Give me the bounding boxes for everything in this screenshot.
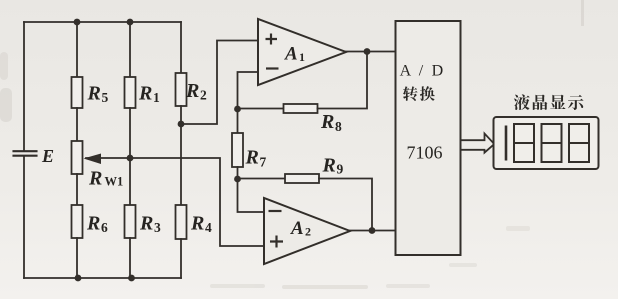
A1 plus input pin symbol [266, 34, 278, 45]
RW1 wiper arrowhead [84, 154, 102, 165]
svg-text:2: 2 [305, 225, 311, 239]
LCD digit 8 (third) [569, 124, 589, 162]
svg-text:A: A [284, 44, 298, 65]
svg-text:R: R [87, 83, 101, 105]
node A1 output [364, 48, 371, 55]
svg-text:R: R [185, 80, 199, 102]
wire R8 to A1 output node [318, 52, 368, 109]
label R4 [190, 213, 212, 236]
svg-text:R: R [320, 111, 334, 133]
svg-text:R: R [88, 168, 102, 190]
node bridge A (R2-R4 junction) [178, 121, 185, 128]
wire R7 to lower node [237, 167, 239, 179]
svg-text:R: R [322, 155, 336, 177]
svg-text:9: 9 [337, 162, 344, 177]
node A2 output [369, 227, 376, 234]
A/D converter U1 (7106) box [396, 21, 461, 255]
resistor R7 [232, 133, 243, 167]
wire bridge node A to A1 noninverting input [181, 41, 258, 125]
wire top bus to R1 [129, 22, 131, 77]
svg-text:7: 7 [260, 155, 267, 170]
svg-text:R: R [245, 147, 259, 169]
label R7 [245, 147, 267, 170]
wire RW1 wiper to A2 noninverting input [86, 158, 264, 246]
label R8 [320, 111, 342, 134]
svg-text:4: 4 [205, 220, 212, 235]
wire RW1 to R6 [76, 174, 78, 205]
wire A2 inverting node to R9 [238, 178, 286, 180]
wire A1 inverting input to R7 [238, 72, 259, 133]
resistor R3 [125, 205, 136, 238]
resistor R5 [72, 77, 83, 108]
svg-text:R: R [190, 213, 204, 235]
wire R6 to bottom bus [76, 238, 78, 278]
label op-amp A1 label [284, 44, 305, 65]
wire bottom bus [24, 277, 181, 279]
svg-text:E: E [41, 146, 54, 166]
A2 plus input pin symbol [270, 236, 283, 248]
label RW1 [88, 168, 123, 190]
svg-text:R: R [86, 213, 100, 235]
svg-text:2: 2 [200, 88, 207, 103]
resistor R9 [285, 174, 319, 183]
potentiometer RW1 [72, 141, 83, 174]
wire A1 inverting node to R8 [238, 108, 284, 110]
label E source [41, 146, 54, 166]
svg-text:R: R [138, 83, 152, 105]
op-amp A1 [258, 19, 346, 85]
LCD digit 1 [505, 126, 508, 161]
wire A1 output to A/D converter [346, 51, 395, 53]
svg-text:7106: 7106 [407, 143, 443, 163]
label R3 [139, 213, 161, 236]
svg-text:8: 8 [335, 119, 342, 134]
node bridge B (R1-R3 / wiper) [127, 155, 134, 162]
op-amp A2 [264, 198, 350, 264]
label 转换 (convert) [403, 86, 435, 101]
wire top bus to R2 [180, 22, 182, 73]
svg-text:1: 1 [299, 50, 305, 64]
label R6 [86, 213, 108, 236]
svg-text:1: 1 [153, 90, 160, 105]
svg-text:R: R [139, 213, 153, 235]
battery E [14, 151, 37, 156]
LCD digit 8 (first) [514, 124, 534, 162]
LCD display module box [494, 117, 599, 169]
svg-text:5: 5 [102, 90, 109, 105]
resistor R8 [284, 104, 318, 113]
resistor R4 [176, 205, 187, 239]
svg-text:6: 6 [101, 220, 108, 235]
node bottom bus / R3 branch [128, 275, 135, 282]
A2 minus input pin symbol [269, 210, 282, 212]
node bottom bus / R6 branch [75, 275, 82, 282]
wire R1 to R3 through bridge node B [129, 108, 131, 205]
wire left branch from top bus to E [23, 22, 25, 150]
label R5 [87, 83, 109, 106]
wire R2 to R4 through bridge node A [180, 106, 182, 205]
resistor R1 [125, 77, 136, 108]
label op-amp A2 label [290, 218, 311, 239]
wire lower node to A2 inverting input [238, 179, 265, 212]
LCD digit 8 (second) [542, 124, 562, 162]
label R9 [322, 155, 344, 177]
wire E to bottom bus [23, 156, 25, 278]
wire R3 to bottom bus [129, 238, 131, 278]
wire A2 output to A/D converter [350, 230, 396, 232]
wire R4 to bottom bus [180, 239, 182, 278]
label R1 [138, 83, 160, 106]
label 液晶显示 (LCD display) [514, 94, 584, 110]
wire R9 to A2 output node [319, 179, 372, 231]
svg-text:A / D: A / D [400, 63, 446, 80]
wire top bus [24, 21, 181, 23]
node A2 inverting (R7/R9) [234, 176, 241, 183]
wire R5 to RW1 [76, 108, 78, 141]
signal arrow A/D to LCD [462, 134, 495, 153]
label R2 [185, 80, 207, 103]
svg-text:A: A [290, 218, 304, 239]
svg-text:3: 3 [154, 220, 161, 235]
wire top bus to R5 [76, 22, 78, 77]
svg-text:W1: W1 [105, 175, 124, 189]
node top bus / R5 branch [74, 19, 81, 26]
resistor R2 [176, 73, 187, 106]
A1 minus input pin symbol [266, 67, 279, 69]
node top bus / R1 branch [127, 19, 134, 26]
resistor R6 [72, 205, 83, 238]
node A1 inverting (R7/R8) [234, 106, 241, 113]
